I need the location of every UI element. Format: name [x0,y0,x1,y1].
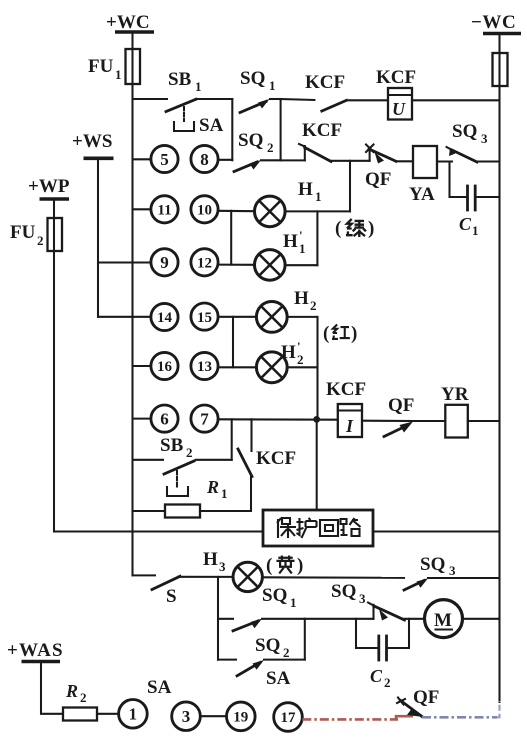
terminal circle 15 [191,303,256,330]
svg-text:1: 1 [299,241,306,256]
svg-text:3: 3 [449,563,456,578]
svg-text:QF: QF [413,687,439,708]
svg-text:9: 9 [160,253,169,272]
svg-text:SQ: SQ [452,121,477,142]
svg-text:−WC: −WC [471,12,516,33]
svg-text:C: C [459,214,472,234]
wire SQ3 to right bus [477,160,500,162]
svg-text:H: H [203,549,218,570]
svg-text:SQ: SQ [255,635,280,656]
wire protection box to right bus [373,530,500,532]
label (red) [323,323,357,344]
switch SB2 [133,435,232,496]
node junction dot [313,416,320,423]
svg-text:YR: YR [441,384,469,405]
svg-text:2: 2 [283,645,290,660]
terminal circle 10 [191,196,255,223]
terminal circle 13 [191,352,256,379]
lamp H1 [254,179,321,227]
contact SQ1 (NO, motor row) [218,585,305,631]
wire junction to protection box [316,419,318,510]
terminal circle 17 [274,703,303,732]
wire left bus +WC vertical [131,84,133,575]
svg-text:KCF: KCF [305,72,345,93]
wire bracket right of SQ1/SQ2 [304,619,306,660]
svg-text:2: 2 [37,233,44,248]
svg-text:SQ: SQ [420,554,445,575]
lamp H3 [203,549,262,592]
contact SQ3 (row2) [447,121,489,162]
terminal circle 3 [172,702,201,731]
terminal circle 1 [119,700,148,729]
terminal circle 16 [133,352,179,379]
svg-text:+WP: +WP [28,176,70,197]
svg-text:R: R [206,477,219,497]
wire joining 15/13 branch [232,317,234,368]
svg-text:SQ: SQ [262,585,287,606]
capacitor C1 branch [450,162,500,239]
svg-text:SA: SA [266,668,291,689]
wire SB2 branch vertical [231,419,233,460]
motor M [425,600,500,638]
svg-text:1: 1 [195,79,202,94]
svg-text:1: 1 [290,595,297,610]
svg-text:3: 3 [481,131,488,146]
wire row1 to coil [347,99,389,101]
svg-text:16: 16 [157,359,173,375]
svg-text:SB: SB [168,69,192,90]
wire row1 coil to right bus [412,99,500,101]
capacitor C2 branch [356,619,409,690]
wire row2 KCF to QF [331,160,370,162]
contact SQ2 (NO, row2) [234,130,281,172]
svg-text:SB: SB [160,435,184,456]
svg-text:10: 10 [197,203,212,219]
wire +WS vertical [97,158,99,316]
terminal circle 5 [133,145,179,172]
svg-text:1: 1 [472,223,479,238]
contact QF (bottom, breaker) [397,687,439,717]
wire bracket joining SQ1/SQ2 left [231,99,233,160]
wire row1 to KCF contact [281,99,315,100]
svg-text:3: 3 [219,559,226,574]
svg-text:12: 12 [197,256,212,272]
contact SQ3 (NO, top right) [404,554,500,590]
wire red highlighted run to QF [302,718,398,721]
terminal circle 12 [191,249,255,276]
contact KCF (NO, self-hold branch) [238,419,296,511]
terminal circle 19 [227,702,256,731]
svg-text:H: H [294,288,309,309]
wire joining H1/H1' right [316,211,318,265]
svg-text:SQ: SQ [331,581,356,602]
svg-text:SA: SA [147,677,172,698]
svg-text:2: 2 [310,298,317,313]
terminal circle 7 [191,405,338,432]
svg-text:H: H [298,179,313,200]
switch S [152,576,233,607]
wire joining H2/H2' right, down to junction [316,317,318,419]
wire bracket joining SQ1/SQ2 right [280,99,282,160]
svg-text:KCF: KCF [326,379,366,400]
svg-text:): ) [351,323,357,344]
contact KCF (NO, row1) [305,72,347,111]
wire drop from row2 to H1 output [349,161,351,212]
block protection circuit (bao hu hui lu) [263,510,373,546]
svg-text:H: H [281,342,296,363]
switch SB1 [166,69,232,131]
fuse FU1 [88,49,140,84]
contact QF (NC with breaker mark, row2) [365,145,396,191]
svg-text:KCF: KCF [376,67,416,88]
svg-text:2: 2 [297,352,304,367]
wire right bus -WC vertical [498,86,500,702]
svg-text:3: 3 [182,707,191,726]
wire row2 to KCF NC [281,159,305,161]
svg-text:QF: QF [365,169,391,190]
terminal circle 8 [191,145,232,172]
svg-text:): ) [297,555,303,576]
svg-text:11: 11 [157,203,171,219]
relay coil KCF (I, current coil) [326,379,366,437]
node +WC supply label [106,12,154,33]
svg-text:2: 2 [267,140,274,155]
wire 3 to 19 [200,715,226,717]
contact SQ3 (NC, motor row) [331,581,405,621]
wire +WP drop to FU2 [53,199,55,218]
wire H2 right [287,316,317,318]
svg-text:5: 5 [160,150,169,169]
node +WP supply label [28,176,70,199]
lamp H1' [254,228,305,280]
wire H1 right to row2 drop [285,210,350,212]
terminal circle 14 [98,303,178,330]
fuse FU2 [10,218,62,251]
wire +WC drop to FU1 [131,32,133,49]
svg-text:U: U [392,99,406,119]
node -WC supply label [471,12,521,34]
svg-text:M: M [434,610,452,631]
wire row1 from bus to SB1 [133,98,168,100]
svg-text:(: ( [266,555,272,576]
svg-text:+WS: +WS [72,131,112,152]
svg-text:I: I [345,416,354,436]
wire bracket H3 branches [217,577,219,660]
wire S row corner [133,574,156,576]
lamp H2 [256,288,316,332]
terminal circle 6 [133,405,179,432]
svg-text:KCF: KCF [256,448,296,469]
svg-text:2: 2 [384,675,391,690]
svg-text:C: C [370,666,383,686]
contact QF (NO, YR row) [384,395,414,437]
fuse FU3 (right, unlabelled) [493,53,508,86]
svg-text:(: ( [335,218,341,239]
svg-text:8: 8 [200,150,209,169]
wire to SQ3 NC [305,618,374,620]
svg-text:QF: QF [388,395,414,416]
svg-text:SQ: SQ [238,130,263,151]
svg-text:2: 2 [186,445,193,460]
lamp H2' [256,339,303,383]
wire YA to SQ3 [437,160,452,162]
wire +WAS drop [41,662,63,714]
svg-text:13: 13 [197,359,212,375]
node +WS supply label [72,131,114,158]
svg-text:YA: YA [409,184,435,205]
svg-text:1: 1 [129,705,138,724]
contact KCF (NC, row2) [299,120,342,162]
svg-text:R: R [65,681,78,701]
svg-text:19: 19 [233,710,248,726]
label (green) [335,218,374,239]
svg-text:1: 1 [221,486,228,501]
node +WAS supply label [7,640,64,662]
svg-text:SQ: SQ [240,68,265,89]
svg-text:17: 17 [281,710,297,726]
svg-text:3: 3 [359,591,366,606]
svg-text:15: 15 [197,310,212,326]
svg-text:1: 1 [115,67,122,82]
svg-text:6: 6 [160,409,169,428]
wire SQ3 NC to motor [405,618,425,620]
svg-text:14: 14 [157,310,173,326]
resistor R1 [133,477,252,518]
svg-text:1: 1 [315,189,322,204]
svg-text:(: ( [323,323,329,344]
svg-text:FU: FU [88,56,114,77]
terminal circle 9 [98,249,178,276]
contact SQ1 (NO, row1) [240,68,281,113]
wire H2' right [287,366,317,368]
svg-text:H: H [283,231,298,252]
svg-text:KCF: KCF [302,120,342,141]
label (yellow) [266,555,303,576]
relay coil KCF (U, voltage coil) [376,67,416,120]
contact SQ2 (NO, bottom row) [218,635,305,676]
wire I coil to QF [362,420,413,422]
wire H1' right [285,264,317,266]
svg-text:+WC: +WC [106,12,150,33]
wire QF to YA [396,160,413,162]
wire blue highlighted run to right bus [422,716,497,719]
svg-text:2: 2 [80,690,87,705]
wire -WC drop to fuse [498,34,500,54]
wire +WP vertical to protection box [54,251,263,532]
svg-text:FU: FU [10,222,36,243]
resistor R2 [63,681,119,721]
relay coil YR [413,384,500,438]
terminal circle 11 [133,196,179,223]
svg-text:S: S [166,586,177,607]
svg-text:+WAS: +WAS [7,640,64,661]
wire joining 10/12 branch [230,211,232,265]
wire H3 to SQ3 top contact [262,576,404,579]
svg-text:7: 7 [200,409,209,428]
svg-text:1: 1 [269,78,276,93]
solenoid coil YA [409,146,437,205]
svg-text:): ) [368,218,374,239]
svg-text:SA: SA [199,115,224,136]
